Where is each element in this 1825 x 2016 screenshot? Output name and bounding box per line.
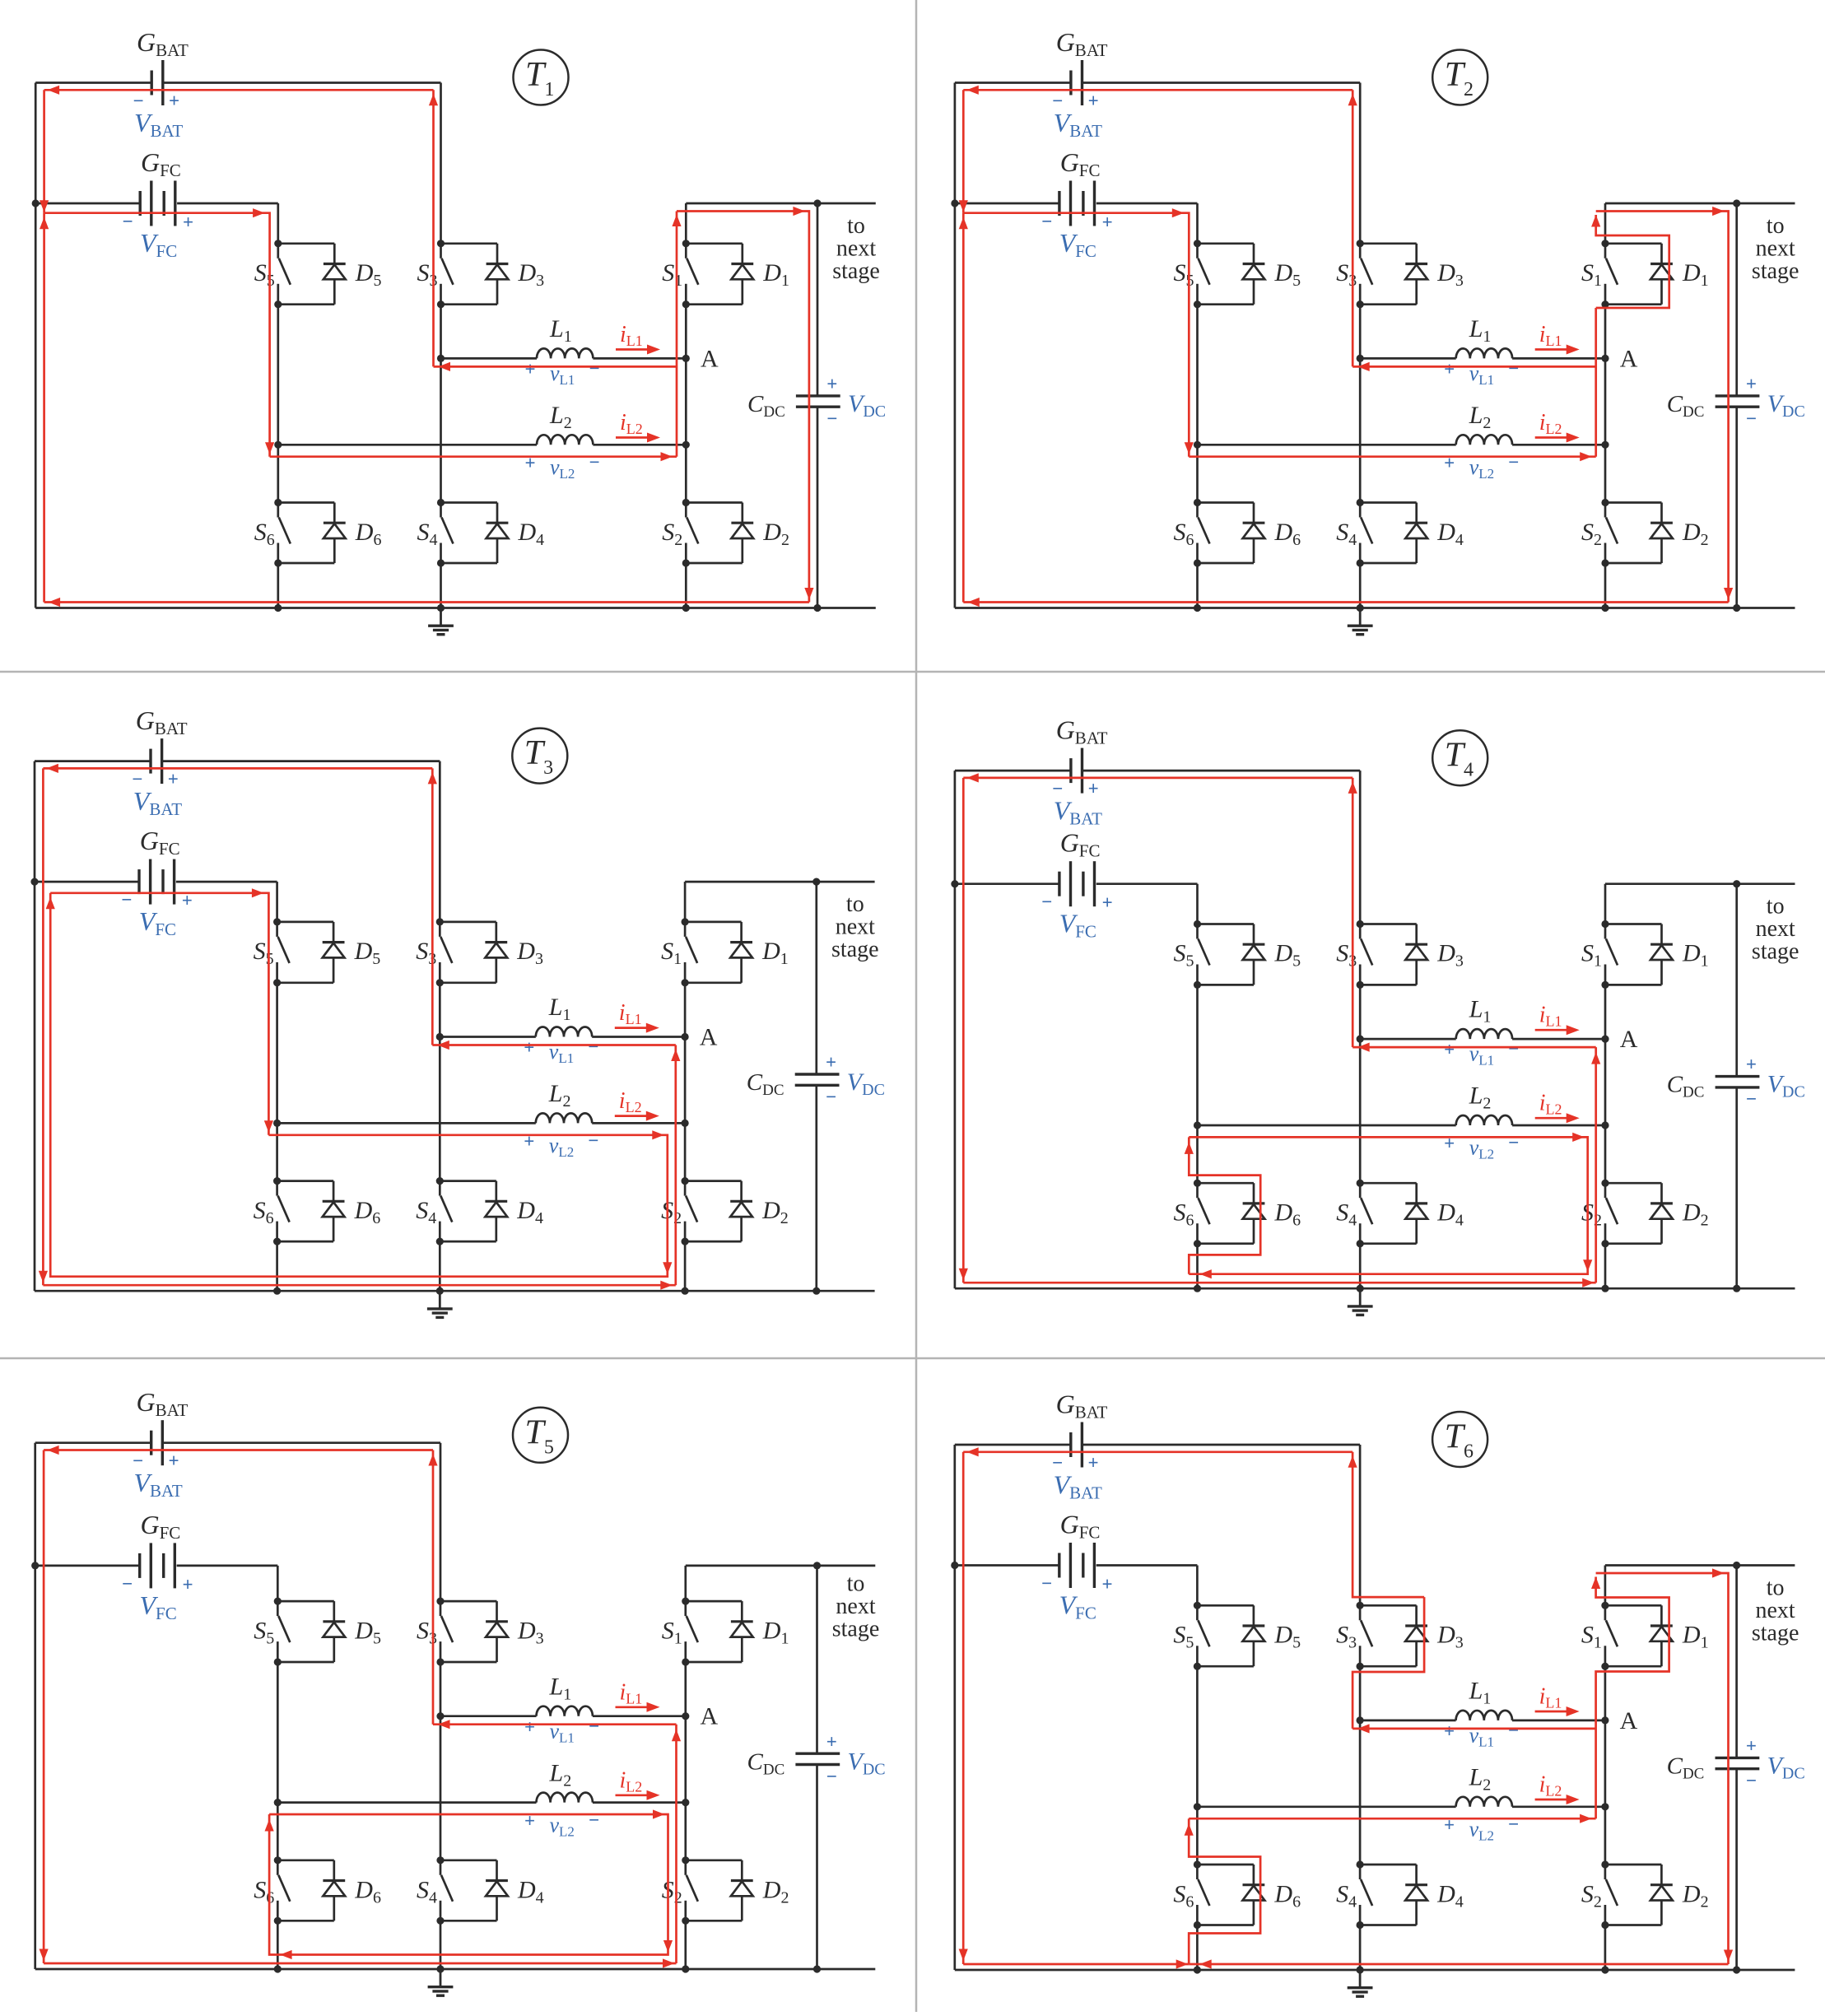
- svg-text:−: −: [1052, 91, 1063, 111]
- svg-text:−: −: [826, 408, 837, 429]
- svg-text:−: −: [1746, 408, 1757, 429]
- svg-text:+: +: [826, 1731, 837, 1752]
- svg-text:+: +: [182, 1574, 193, 1595]
- svg-text:−: −: [1052, 779, 1063, 799]
- svg-text:next: next: [836, 915, 875, 940]
- svg-text:−: −: [1508, 1039, 1519, 1059]
- svg-text:−: −: [1041, 212, 1052, 232]
- svg-text:−: −: [589, 1716, 599, 1736]
- svg-text:stage: stage: [831, 937, 879, 962]
- svg-text:−: −: [1746, 1089, 1757, 1110]
- svg-text:−: −: [589, 452, 599, 473]
- svg-text:−: −: [588, 1036, 598, 1057]
- svg-text:−: −: [133, 91, 143, 111]
- svg-text:−: −: [589, 1809, 599, 1830]
- svg-text:+: +: [826, 1052, 836, 1073]
- svg-text:next: next: [836, 236, 876, 262]
- svg-text:−: −: [1041, 892, 1052, 912]
- svg-text:+: +: [524, 1037, 534, 1058]
- svg-text:+: +: [1746, 1736, 1757, 1757]
- svg-text:−: −: [132, 769, 142, 789]
- svg-text:+: +: [183, 212, 193, 233]
- svg-text:to: to: [1767, 213, 1785, 239]
- svg-text:+: +: [1102, 1574, 1113, 1595]
- svg-text:−: −: [1746, 1771, 1757, 1791]
- svg-text:next: next: [1755, 1598, 1795, 1623]
- svg-text:−: −: [122, 1573, 133, 1594]
- svg-text:+: +: [1102, 892, 1113, 913]
- svg-text:−: −: [122, 212, 133, 232]
- svg-text:to: to: [1767, 1576, 1785, 1601]
- svg-text:stage: stage: [832, 1616, 880, 1641]
- svg-text:A: A: [700, 1024, 718, 1051]
- svg-text:+: +: [169, 91, 179, 111]
- svg-text:−: −: [1508, 1720, 1519, 1741]
- svg-text:+: +: [1088, 779, 1099, 799]
- svg-text:−: −: [133, 1450, 143, 1471]
- svg-text:to: to: [846, 892, 864, 917]
- svg-text:stage: stage: [1752, 1621, 1799, 1646]
- svg-text:−: −: [1508, 358, 1519, 379]
- svg-text:+: +: [1102, 212, 1113, 233]
- svg-text:+: +: [1444, 1721, 1455, 1742]
- svg-text:+: +: [1444, 359, 1455, 379]
- svg-text:−: −: [826, 1766, 837, 1786]
- svg-text:−: −: [1041, 1573, 1052, 1594]
- svg-text:A: A: [1620, 1026, 1638, 1053]
- svg-text:+: +: [1746, 374, 1757, 394]
- svg-text:next: next: [836, 1594, 875, 1619]
- svg-text:+: +: [168, 769, 179, 789]
- svg-text:+: +: [1088, 91, 1099, 111]
- svg-text:stage: stage: [832, 258, 880, 284]
- svg-text:−: −: [1052, 1453, 1063, 1474]
- svg-text:+: +: [1746, 1055, 1757, 1075]
- svg-text:stage: stage: [1752, 939, 1799, 965]
- svg-text:next: next: [1756, 236, 1795, 262]
- svg-text:−: −: [1508, 1133, 1519, 1153]
- svg-text:+: +: [1088, 1453, 1099, 1474]
- svg-text:−: −: [1508, 452, 1519, 473]
- svg-text:+: +: [168, 1450, 179, 1471]
- svg-text:−: −: [589, 358, 599, 379]
- svg-text:to: to: [847, 1571, 865, 1596]
- svg-text:A: A: [701, 1703, 719, 1730]
- svg-text:A: A: [701, 345, 719, 372]
- svg-text:−: −: [1508, 1814, 1519, 1835]
- svg-text:+: +: [524, 1716, 535, 1737]
- svg-text:to: to: [1767, 894, 1785, 920]
- svg-text:A: A: [1620, 1707, 1638, 1734]
- svg-text:−: −: [588, 1130, 598, 1151]
- svg-text:stage: stage: [1752, 258, 1799, 284]
- svg-text:+: +: [826, 374, 837, 394]
- svg-text:A: A: [1620, 345, 1638, 372]
- svg-text:−: −: [826, 1087, 836, 1107]
- svg-text:to: to: [847, 213, 865, 239]
- svg-text:next: next: [1756, 916, 1795, 942]
- svg-text:+: +: [524, 359, 535, 379]
- svg-text:+: +: [1444, 1040, 1455, 1060]
